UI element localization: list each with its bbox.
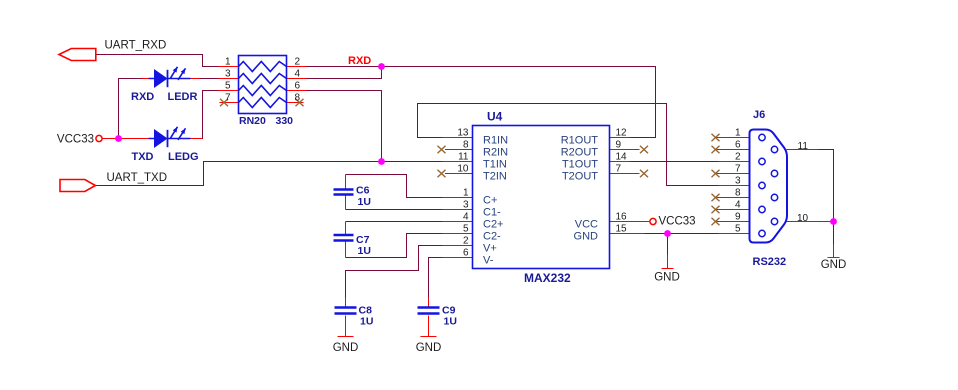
svg-text:8: 8	[735, 188, 741, 199]
svg-text:1U: 1U	[358, 196, 371, 208]
svg-text:1U: 1U	[360, 316, 373, 328]
svg-text:VCC33: VCC33	[659, 216, 696, 228]
svg-text:U4: U4	[487, 110, 503, 124]
svg-text:MAX232: MAX232	[524, 271, 571, 285]
svg-text:RXD: RXD	[131, 91, 154, 103]
svg-text:2: 2	[295, 57, 301, 68]
svg-text:R1OUT: R1OUT	[561, 135, 599, 147]
svg-text:12: 12	[616, 128, 628, 139]
svg-text:GND: GND	[416, 342, 442, 354]
svg-text:RN20: RN20	[239, 115, 266, 127]
svg-text:15: 15	[616, 224, 628, 235]
svg-text:GND: GND	[574, 231, 599, 243]
svg-text:6: 6	[735, 140, 741, 151]
svg-text:8: 8	[463, 140, 469, 151]
svg-text:1: 1	[225, 57, 231, 68]
svg-text:1U: 1U	[358, 245, 371, 257]
svg-text:5: 5	[463, 224, 469, 235]
svg-text:5: 5	[225, 81, 231, 92]
svg-text:14: 14	[616, 152, 628, 163]
svg-text:V-: V-	[483, 255, 494, 267]
svg-text:4: 4	[295, 69, 301, 80]
svg-text:RXD: RXD	[348, 55, 371, 67]
svg-text:LEDG: LEDG	[168, 151, 199, 163]
svg-text:LEDR: LEDR	[168, 91, 198, 103]
svg-text:VCC: VCC	[575, 219, 598, 231]
svg-text:4: 4	[463, 212, 469, 223]
svg-text:13: 13	[457, 128, 469, 139]
svg-text:R2OUT: R2OUT	[561, 147, 599, 159]
svg-text:2: 2	[735, 152, 741, 163]
svg-text:T1IN: T1IN	[483, 159, 507, 171]
svg-text:J6: J6	[753, 109, 765, 121]
svg-text:GND: GND	[333, 342, 359, 354]
svg-text:C+: C+	[483, 195, 497, 207]
svg-text:T2OUT: T2OUT	[562, 171, 598, 183]
svg-text:V+: V+	[483, 243, 497, 255]
svg-text:11: 11	[798, 141, 809, 152]
svg-text:GND: GND	[821, 259, 847, 271]
svg-text:2: 2	[463, 236, 469, 247]
svg-text:RS232: RS232	[753, 256, 787, 268]
svg-text:11: 11	[458, 152, 469, 163]
svg-text:3: 3	[735, 176, 741, 187]
svg-text:T1OUT: T1OUT	[562, 159, 598, 171]
svg-text:C2-: C2-	[483, 231, 501, 243]
svg-text:R1IN: R1IN	[483, 135, 508, 147]
svg-text:UART_TXD: UART_TXD	[107, 172, 168, 184]
svg-text:5: 5	[735, 224, 741, 235]
svg-text:3: 3	[225, 69, 231, 80]
svg-text:1: 1	[735, 128, 741, 139]
svg-text:T2IN: T2IN	[483, 171, 507, 183]
svg-text:16: 16	[616, 212, 628, 223]
svg-text:7: 7	[225, 93, 231, 104]
svg-text:3: 3	[463, 200, 469, 211]
svg-text:TXD: TXD	[132, 151, 154, 163]
svg-text:10: 10	[797, 213, 809, 224]
svg-text:4: 4	[735, 200, 741, 211]
svg-text:9: 9	[735, 212, 741, 223]
svg-text:7: 7	[616, 164, 622, 175]
svg-text:1U: 1U	[444, 316, 457, 328]
svg-text:10: 10	[457, 164, 469, 175]
svg-text:6: 6	[463, 248, 469, 259]
svg-text:C2+: C2+	[483, 219, 504, 231]
svg-text:UART_RXD: UART_RXD	[105, 40, 167, 52]
svg-text:VCC33: VCC33	[57, 134, 94, 146]
svg-text:6: 6	[295, 81, 301, 92]
svg-text:R2IN: R2IN	[483, 147, 508, 159]
svg-text:1: 1	[463, 188, 469, 199]
svg-text:C6: C6	[356, 185, 370, 197]
svg-text:9: 9	[616, 140, 622, 151]
svg-text:330: 330	[276, 115, 294, 127]
svg-text:C1-: C1-	[483, 207, 501, 219]
svg-text:GND: GND	[654, 272, 680, 284]
svg-text:7: 7	[735, 164, 741, 175]
svg-text:8: 8	[295, 93, 301, 104]
